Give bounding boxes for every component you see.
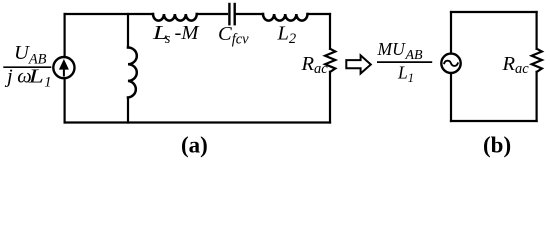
- svg-text:s: s: [165, 31, 171, 47]
- svg-text:(b): (b): [483, 133, 511, 158]
- wire: middle branch lower stub: [127, 98, 129, 123]
- wire: circuit (a) left rail below current source: [63, 78, 65, 122]
- resistor Rac (b) zigzag: [532, 49, 542, 72]
- wire: circuit (a) bottom rail: [65, 121, 330, 123]
- AC source circle: [441, 54, 460, 73]
- wire: circuit (b) bottom rail: [451, 120, 537, 122]
- wire: circuit (b) left rail above source: [450, 12, 452, 54]
- current source U_AB/jwL1 circle: [53, 57, 74, 78]
- svg-text:MUAB: MUAB: [377, 39, 424, 63]
- wire: circuit (b) right rail lower: [535, 72, 537, 121]
- capacitor Cfcv plates: [229, 4, 234, 24]
- svg-text:Rac: Rac: [502, 53, 530, 77]
- wire: circuit (b) top rail: [451, 11, 537, 13]
- svg-text:-M: -M: [175, 22, 201, 44]
- svg-text:L: L: [28, 65, 44, 87]
- inductor Ls-M (top, series): [153, 14, 197, 21]
- inductor L1 (middle shunt branch): [128, 48, 137, 98]
- wire: middle branch upper stub: [127, 14, 129, 48]
- wire: circuit (b) left rail below source: [450, 73, 452, 121]
- wire: circuit (a) top rail left segment: [65, 13, 153, 15]
- svg-text:(a): (a): [181, 133, 208, 158]
- svg-text:Rac: Rac: [301, 53, 329, 77]
- wire: top rail between Ls-M and Cfcv: [197, 13, 227, 15]
- wire: top rail between Cfcv and L2: [236, 13, 263, 15]
- wire: circuit (b) right rail upper: [535, 12, 537, 49]
- equivalence block arrow: [346, 55, 371, 73]
- node label fraction U_AB / jωL1: [3, 42, 51, 91]
- AC source sine wave: [444, 61, 458, 66]
- svg-text:UAB: UAB: [14, 42, 47, 68]
- wire: circuit (a) right rail lower: [329, 72, 331, 123]
- svg-text:L1: L1: [397, 62, 414, 84]
- resistor Rac (a) zigzag: [325, 49, 335, 72]
- wire: circuit (a) right rail upper: [329, 14, 331, 49]
- wire: top rail right segment to Rac: [308, 13, 331, 15]
- svg-text:L2: L2: [277, 23, 297, 48]
- svg-text:Cfcv: Cfcv: [218, 23, 249, 48]
- node label fraction MU_AB / L1: [377, 39, 433, 85]
- svg-text:j: j: [4, 65, 13, 87]
- inductor L2 (top, series): [263, 14, 308, 21]
- current source arrow (upward): [59, 59, 69, 77]
- wire: circuit (a) left rail above current source: [63, 14, 65, 57]
- svg-text:1: 1: [44, 75, 51, 91]
